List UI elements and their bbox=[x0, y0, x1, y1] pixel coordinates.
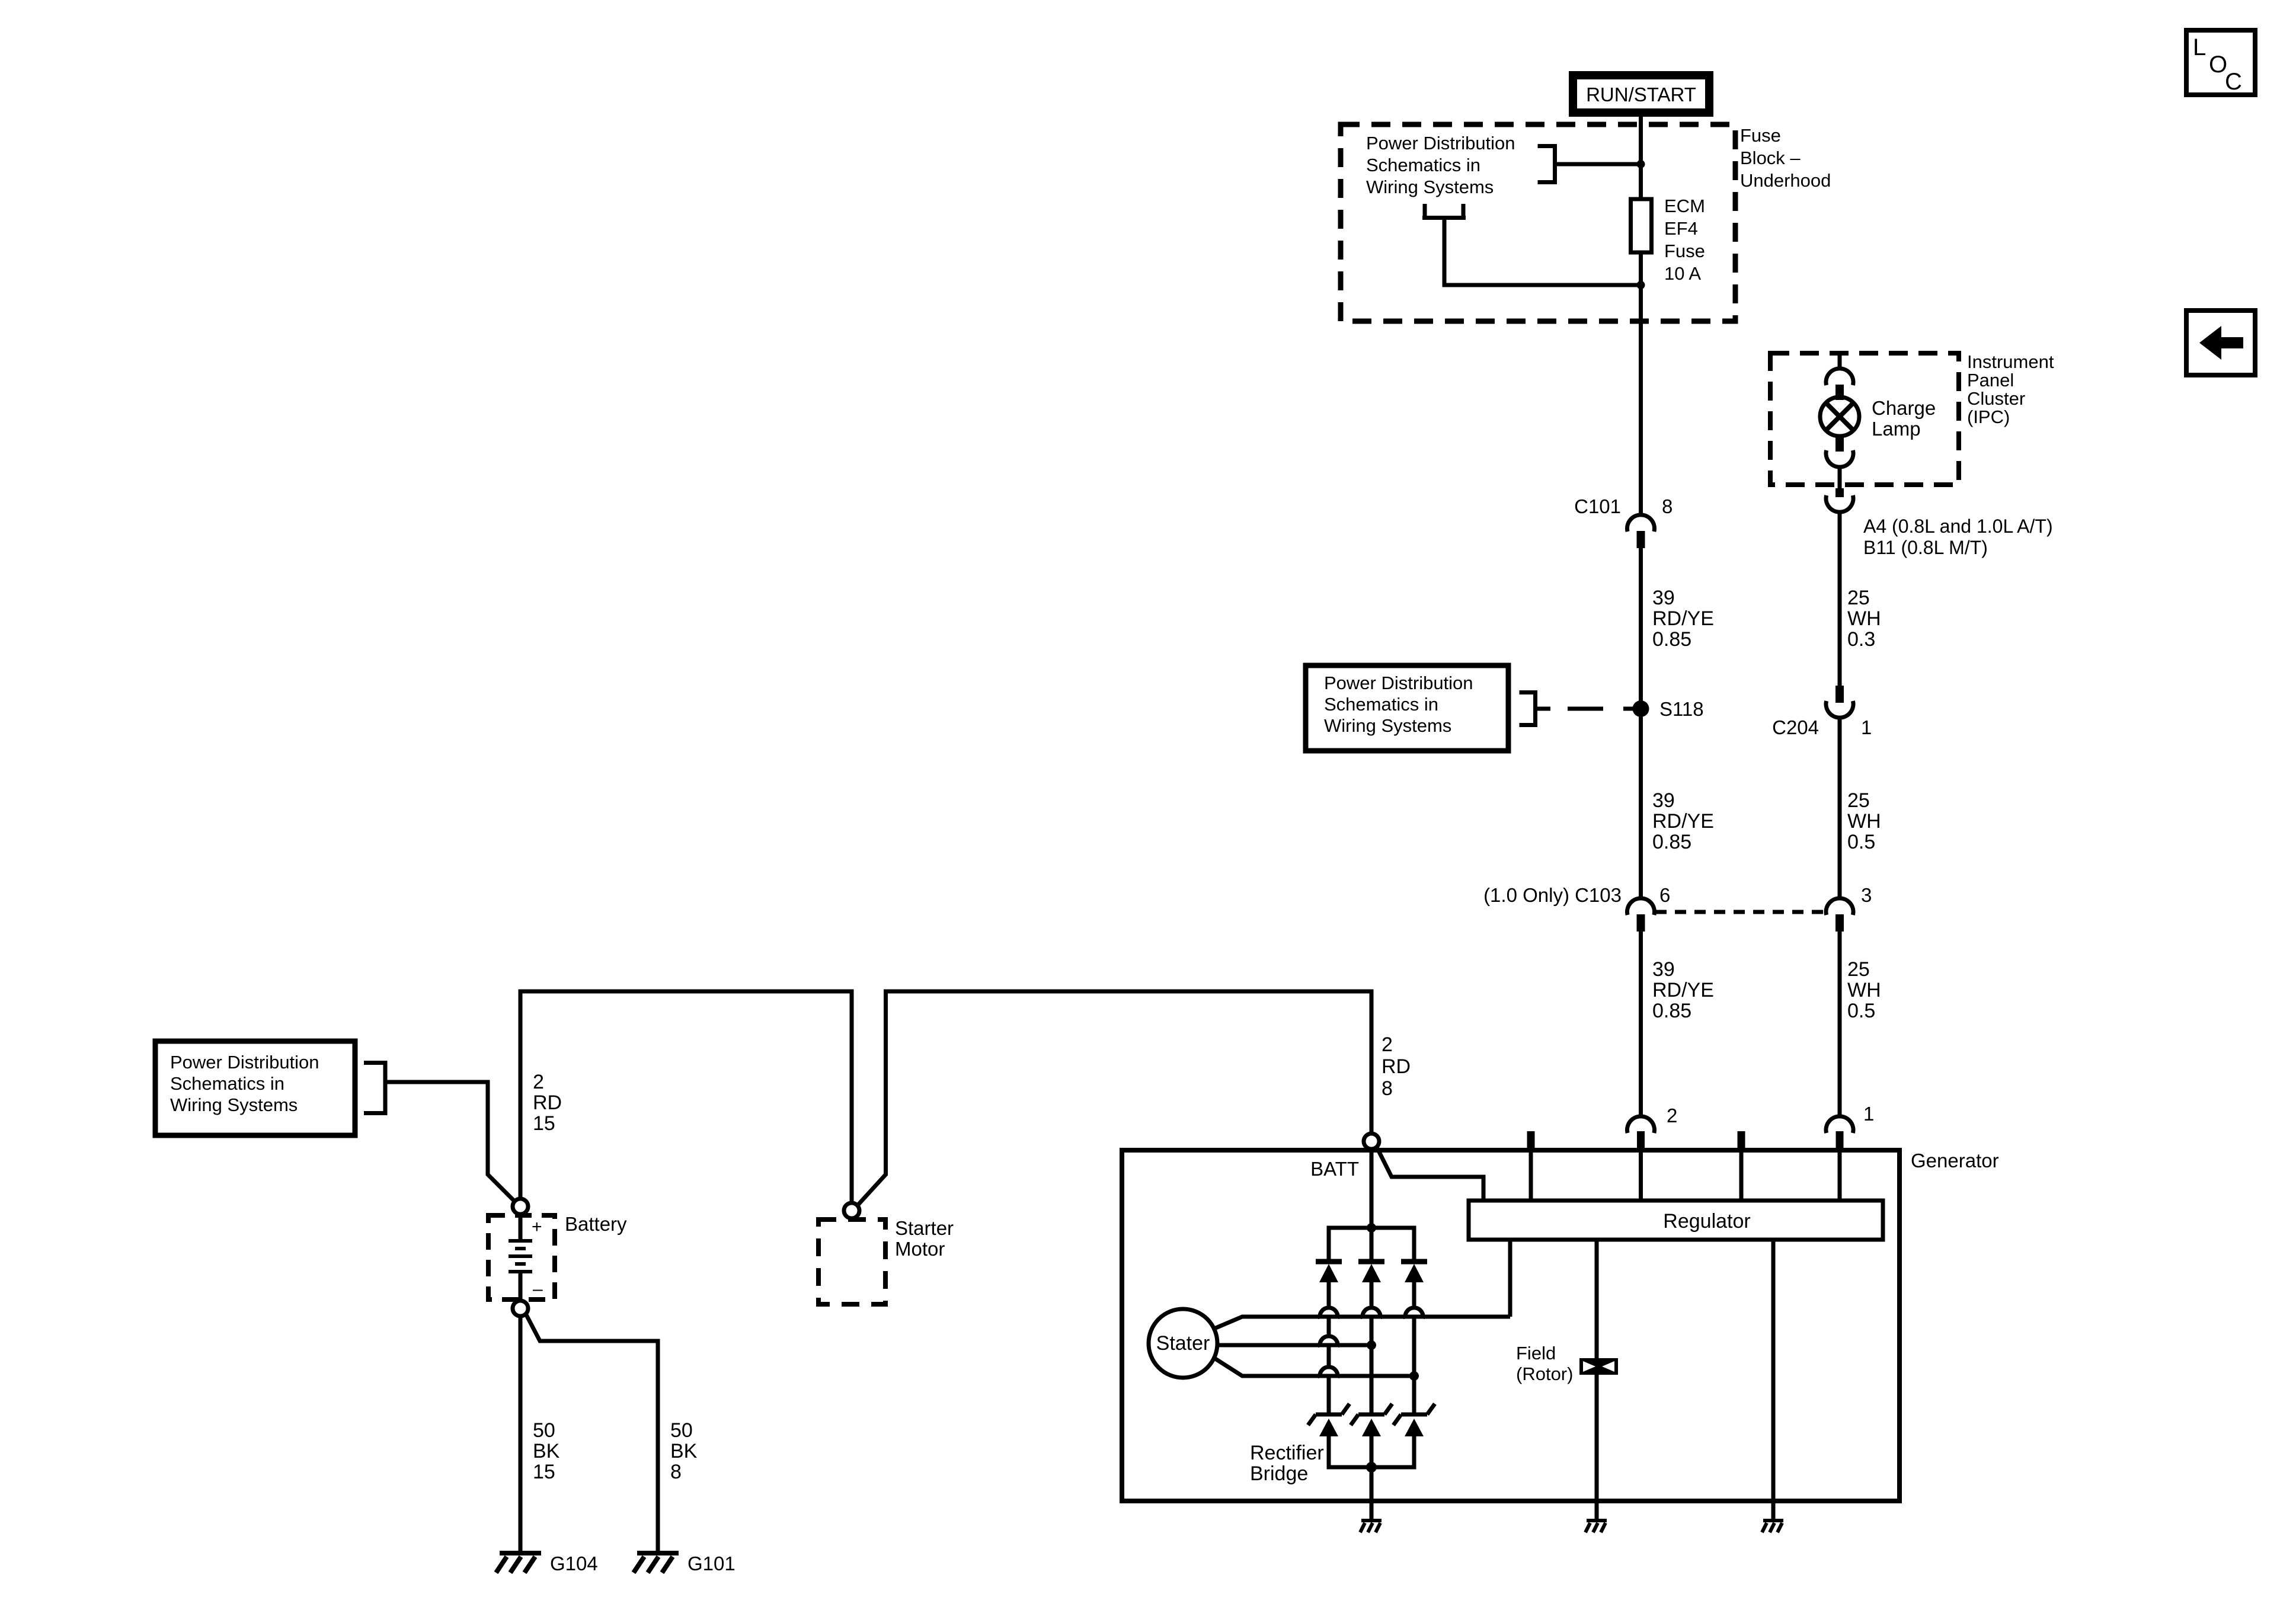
generator pin 1 arc bbox=[1826, 1116, 1853, 1133]
lamp lower socket cup arc bbox=[1826, 450, 1853, 467]
svg-text:Power Distribution: Power Distribution bbox=[170, 1052, 319, 1073]
svg-text:RD/YE: RD/YE bbox=[1652, 979, 1714, 1001]
wire hop arc middle over stator wire A bbox=[1363, 1308, 1380, 1318]
svg-text:A4 (0.8L and 1.0L A/T): A4 (0.8L and 1.0L A/T) bbox=[1863, 516, 2053, 537]
svg-text:Rectifier: Rectifier bbox=[1250, 1442, 1324, 1464]
svg-text:Wiring Systems: Wiring Systems bbox=[170, 1094, 298, 1115]
wire C101 to C103 (39 RD/YE) bbox=[1639, 548, 1643, 898]
dashed wire to S118 bbox=[1568, 707, 1603, 711]
svg-text:39: 39 bbox=[1652, 587, 1675, 609]
connector C101 pin stub bbox=[1637, 531, 1645, 548]
svg-text:0.85: 0.85 bbox=[1652, 831, 1691, 853]
svg-text:Regulator: Regulator bbox=[1663, 1210, 1750, 1233]
wire RUN/START to C101 (39 RD/YE) bbox=[1639, 113, 1643, 516]
wire A4 connector to C204 (25 WH) bbox=[1838, 512, 1842, 686]
diode upper left triangle bbox=[1319, 1264, 1338, 1282]
generator pin 2 arc bbox=[1627, 1116, 1655, 1133]
svg-text:15: 15 bbox=[533, 1461, 555, 1483]
power distribution reference box (bottom left) bbox=[155, 1041, 355, 1135]
instrument panel cluster dashed box bbox=[1770, 353, 1959, 485]
wire rectifier left vertical middle bbox=[1327, 1317, 1331, 1336]
svg-text:Fuse: Fuse bbox=[1740, 125, 1781, 146]
svg-text:Field: Field bbox=[1516, 1343, 1556, 1363]
junction dot at fuse bottom bbox=[1637, 281, 1645, 289]
svg-text:6: 6 bbox=[1659, 884, 1670, 906]
svg-text:G101: G101 bbox=[687, 1553, 736, 1574]
lamp lower socket stub bbox=[1835, 434, 1844, 452]
ground generator rectifier hatches bbox=[1360, 1523, 1365, 1532]
svg-text:(IPC): (IPC) bbox=[1967, 406, 2010, 427]
svg-text:Schematics in: Schematics in bbox=[1366, 155, 1480, 175]
symbol arrow bbox=[2199, 326, 2221, 360]
charge lamp bulb bbox=[1820, 397, 1859, 436]
svg-text:25: 25 bbox=[1847, 789, 1870, 812]
ground G101 bar bbox=[637, 1551, 679, 1555]
ground generator field hatches bbox=[1585, 1523, 1590, 1532]
svg-text:0.85: 0.85 bbox=[1652, 1000, 1691, 1022]
svg-text:Generator: Generator bbox=[1911, 1150, 1999, 1172]
wire rectifier right vertical upper bbox=[1412, 1282, 1416, 1308]
wire cup bracket to lower junction bbox=[1444, 220, 1641, 285]
diode upper middle cathode bar bbox=[1358, 1259, 1384, 1265]
wire hop arc left over stator wire B bbox=[1320, 1336, 1338, 1347]
svg-text:Charge: Charge bbox=[1872, 397, 1936, 419]
wire regulator to ground bbox=[1771, 1240, 1776, 1521]
field rotor symbol bbox=[1579, 1358, 1618, 1375]
svg-text:Block –: Block – bbox=[1740, 148, 1801, 168]
svg-text:WH: WH bbox=[1847, 979, 1881, 1001]
symbol arrow box bbox=[2186, 311, 2255, 375]
bracket under wiring systems text (cup) bbox=[1423, 204, 1427, 218]
svg-text:G104: G104 bbox=[550, 1553, 598, 1574]
svg-text:Fuse: Fuse bbox=[1664, 241, 1705, 261]
diode lower right bent cathode bbox=[1401, 1413, 1427, 1417]
svg-text:ECM: ECM bbox=[1664, 196, 1705, 216]
connector C103 arc (pin 3) bbox=[1826, 898, 1853, 915]
svg-text:Bridge: Bridge bbox=[1250, 1462, 1308, 1485]
diode lower left triangle bbox=[1319, 1419, 1338, 1436]
lamp upper socket stub bbox=[1835, 385, 1844, 400]
ground generator field bar bbox=[1587, 1519, 1607, 1522]
wire hop arc left over stator wire C bbox=[1320, 1367, 1338, 1378]
ground G104 hatches bbox=[496, 1557, 507, 1573]
wire BATT terminal to regulator bbox=[1376, 1146, 1483, 1201]
ground G104 bar bbox=[500, 1551, 541, 1555]
stator winding circle bbox=[1149, 1309, 1217, 1378]
svg-text:Cluster: Cluster bbox=[1967, 388, 2025, 409]
svg-text:10 A: 10 A bbox=[1664, 263, 1701, 284]
junction dot at fuse top bbox=[1637, 160, 1645, 168]
wire lamp to IPC connector bbox=[1838, 467, 1842, 488]
wire bus battery to starter (2 RD) bbox=[520, 991, 852, 1203]
svg-text:50: 50 bbox=[670, 1419, 693, 1442]
svg-text:Battery: Battery bbox=[565, 1213, 627, 1235]
svg-text:C101: C101 bbox=[1574, 495, 1621, 517]
svg-text:8: 8 bbox=[1382, 1077, 1393, 1100]
svg-text:RD/YE: RD/YE bbox=[1652, 810, 1714, 833]
svg-text:RD: RD bbox=[1382, 1055, 1411, 1078]
junction dot stator wire C to right leg bbox=[1409, 1371, 1419, 1381]
wire field to ground bbox=[1595, 1375, 1599, 1521]
svg-text:Schematics in: Schematics in bbox=[1324, 694, 1438, 715]
splice S118 dot bbox=[1633, 700, 1649, 717]
svg-text:Wiring Systems: Wiring Systems bbox=[1324, 715, 1451, 736]
svg-text:Starter: Starter bbox=[895, 1217, 954, 1239]
junction dot rectifier bottom bus bbox=[1366, 1462, 1377, 1473]
wire rectifier right vertical middle bbox=[1412, 1317, 1416, 1413]
symbol LOC box bbox=[2186, 30, 2255, 95]
svg-text:WH: WH bbox=[1847, 607, 1881, 630]
junction dot rectifier top bus bbox=[1367, 1223, 1376, 1233]
svg-text:(1.0 Only) C103: (1.0 Only) C103 bbox=[1483, 884, 1622, 906]
svg-text:(Rotor): (Rotor) bbox=[1516, 1363, 1573, 1384]
svg-text:2: 2 bbox=[1667, 1105, 1677, 1126]
connector C101 arc bbox=[1627, 515, 1655, 532]
wire middle leg top bbox=[1370, 1228, 1374, 1259]
svg-text:BK: BK bbox=[670, 1440, 698, 1462]
svg-text:8: 8 bbox=[1662, 495, 1673, 517]
svg-text:39: 39 bbox=[1652, 789, 1675, 812]
diode lower right triangle bbox=[1405, 1419, 1424, 1436]
svg-text:Power Distribution: Power Distribution bbox=[1324, 673, 1473, 693]
generator pin stub (internal left) bbox=[1527, 1131, 1535, 1150]
connector C103 arc (pin 6) bbox=[1627, 898, 1655, 915]
svg-text:Stater: Stater bbox=[1156, 1332, 1210, 1355]
terminal BATT circle bbox=[1364, 1134, 1379, 1149]
wire rectifier middle vertical upper bbox=[1370, 1282, 1374, 1308]
terminal battery negative circle bbox=[513, 1301, 528, 1316]
connector A4/B11 cup arc bbox=[1826, 495, 1853, 512]
starter motor dashed box bbox=[818, 1219, 885, 1304]
connector C103 pin stub (pin 3) bbox=[1835, 914, 1844, 932]
svg-text:1: 1 bbox=[1861, 716, 1872, 738]
svg-text:39: 39 bbox=[1652, 958, 1675, 981]
terminal starter motor circle bbox=[844, 1203, 859, 1218]
wire regulator to stator sense elbow bbox=[1508, 1240, 1512, 1317]
wire bus starter to generator BATT (2 RD 8) bbox=[858, 991, 1371, 1205]
battery dashed box bbox=[488, 1215, 555, 1299]
connector C204 stub bbox=[1835, 686, 1844, 703]
regulator box bbox=[1469, 1201, 1883, 1240]
diode upper right cathode bar bbox=[1401, 1259, 1427, 1265]
svg-text:Panel: Panel bbox=[1967, 370, 2014, 391]
svg-text:Instrument: Instrument bbox=[1967, 351, 2054, 372]
wire battery negative to G101 bbox=[526, 1314, 658, 1553]
svg-text:Schematics in: Schematics in bbox=[170, 1073, 284, 1094]
svg-text:2: 2 bbox=[533, 1071, 544, 1093]
bracket of middle power distribution box bbox=[1533, 690, 1537, 727]
power distribution reference box (middle) bbox=[1306, 665, 1508, 751]
wire rectifier bottom bus to ground bbox=[1370, 1467, 1374, 1521]
wire regulator to field bbox=[1595, 1240, 1599, 1358]
wire middle leg bottom bbox=[1370, 1436, 1374, 1467]
svg-text:WH: WH bbox=[1847, 810, 1881, 833]
bracket of bottom left power distribution box bbox=[383, 1061, 388, 1115]
diode lower left bent cathode bbox=[1316, 1413, 1342, 1417]
svg-text:8: 8 bbox=[670, 1461, 682, 1483]
stator wire B (to middle leg) bbox=[1217, 1343, 1371, 1347]
svg-text:BK: BK bbox=[533, 1440, 560, 1462]
svg-text:0.3: 0.3 bbox=[1847, 628, 1875, 651]
wire C103 to generator pin 1 (25 WH) bbox=[1838, 932, 1842, 1116]
svg-text:S118: S118 bbox=[1659, 698, 1704, 720]
svg-text:L: L bbox=[2193, 34, 2206, 60]
svg-text:C204: C204 bbox=[1772, 716, 1819, 738]
connector C103 pin stub (pin 6) bbox=[1637, 914, 1645, 932]
svg-text:EF4: EF4 bbox=[1664, 218, 1698, 239]
terminal battery positive circle bbox=[513, 1199, 528, 1214]
diode lower middle bent cathode bbox=[1358, 1413, 1384, 1417]
dashed connector line C103 bbox=[1655, 910, 1824, 914]
svg-text:0.5: 0.5 bbox=[1847, 831, 1875, 853]
svg-text:0.5: 0.5 bbox=[1847, 1000, 1875, 1022]
wire C204 to C103 (25 WH) bbox=[1838, 718, 1842, 898]
diode upper middle triangle bbox=[1362, 1264, 1381, 1282]
wire BATT terminal to rectifier bus bbox=[1370, 1149, 1374, 1228]
svg-text:RUN/START: RUN/START bbox=[1586, 84, 1696, 105]
rectifier top bus bbox=[1329, 1228, 1414, 1259]
svg-text:–: – bbox=[533, 1279, 543, 1299]
wire rectifier left vertical upper bbox=[1327, 1282, 1331, 1308]
wire battery negative to G104 bbox=[519, 1316, 523, 1553]
wire rectifier middle vertical middle bbox=[1370, 1317, 1374, 1413]
diode lower middle triangle bbox=[1362, 1419, 1381, 1436]
generator pin 2 stub bbox=[1637, 1131, 1645, 1150]
svg-text:B11 (0.8L M/T): B11 (0.8L M/T) bbox=[1863, 537, 1988, 558]
svg-text:Power Distribution: Power Distribution bbox=[1366, 133, 1515, 153]
svg-text:0.85: 0.85 bbox=[1652, 628, 1691, 651]
lamp upper socket arc bbox=[1826, 369, 1853, 385]
diode upper right triangle bbox=[1405, 1264, 1424, 1282]
wire IPC top to lamp socket bbox=[1838, 354, 1842, 369]
junction dot stator wire B to middle leg bbox=[1367, 1340, 1376, 1350]
connector A4/B11 stub bbox=[1835, 488, 1844, 497]
battery cell plates bbox=[519, 1214, 523, 1241]
ground generator rectifier bar bbox=[1361, 1519, 1382, 1522]
svg-text:RD: RD bbox=[533, 1092, 562, 1114]
svg-text:3: 3 bbox=[1861, 884, 1872, 906]
diode upper left cathode bar bbox=[1316, 1259, 1342, 1265]
connector C204 cup arc bbox=[1826, 701, 1853, 718]
svg-text:C: C bbox=[2225, 69, 2242, 95]
wire bracket to junction bbox=[1555, 162, 1641, 167]
fuse block underhood dashed box bbox=[1341, 124, 1735, 321]
generator box bbox=[1122, 1150, 1900, 1501]
generator pin stub (internal right) bbox=[1738, 1131, 1745, 1150]
svg-text:25: 25 bbox=[1847, 958, 1870, 981]
svg-text:Underhood: Underhood bbox=[1740, 170, 1831, 191]
bracket to power distribution (fuse block upper) bbox=[1553, 144, 1557, 184]
svg-text:+: + bbox=[532, 1217, 542, 1237]
svg-text:1: 1 bbox=[1863, 1103, 1874, 1125]
ground generator regulator hatches bbox=[1762, 1523, 1767, 1532]
svg-text:Wiring Systems: Wiring Systems bbox=[1366, 177, 1494, 197]
svg-text:Motor: Motor bbox=[895, 1238, 945, 1260]
wire hop arc left over stator wire A bbox=[1320, 1308, 1338, 1318]
svg-text:15: 15 bbox=[533, 1112, 555, 1135]
svg-text:RD/YE: RD/YE bbox=[1652, 607, 1714, 630]
svg-text:2: 2 bbox=[1382, 1033, 1393, 1056]
generator pin 1 stub bbox=[1836, 1131, 1844, 1150]
ground G101 hatches bbox=[634, 1557, 644, 1573]
stator wire C (to right leg) bbox=[1214, 1358, 1414, 1376]
svg-text:25: 25 bbox=[1847, 587, 1870, 609]
svg-text:50: 50 bbox=[533, 1419, 555, 1442]
svg-text:Lamp: Lamp bbox=[1872, 418, 1921, 440]
wire hop arc right over stator wire A bbox=[1405, 1308, 1423, 1318]
rectifier bottom bus bbox=[1329, 1436, 1414, 1467]
wire power distribution to battery positive bbox=[385, 1082, 515, 1202]
ground generator regulator bar bbox=[1763, 1519, 1783, 1522]
stator wire A (to regulator) bbox=[1214, 1317, 1510, 1329]
wire C103 to generator pin 2 (39 RD/YE) bbox=[1639, 932, 1643, 1116]
switch RUN/START box bbox=[1573, 75, 1709, 113]
fuse ECM EF4 10A bbox=[1631, 199, 1652, 252]
svg-text:BATT: BATT bbox=[1310, 1158, 1359, 1180]
